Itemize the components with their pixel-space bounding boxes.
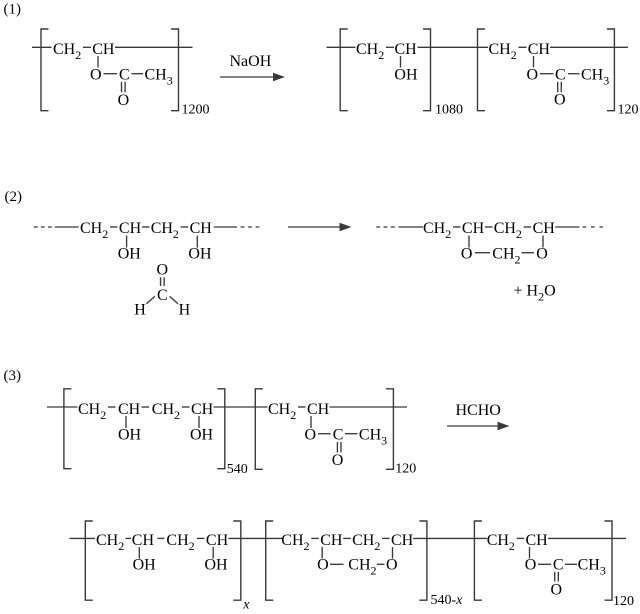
svg-text:CH: CH	[395, 41, 418, 58]
svg-text:CH: CH	[190, 220, 213, 237]
svg-text:NaOH: NaOH	[230, 53, 272, 70]
bond CH2-CH	[517, 537, 525, 539]
repeat count 120	[613, 594, 634, 609]
hydroxyl OH	[205, 557, 229, 574]
bond CH-O (right)	[542, 236, 544, 248]
svg-text:CH: CH	[92, 41, 115, 58]
reaction arrow 1	[220, 73, 285, 81]
bond CH2-CH	[83, 46, 91, 48]
CH2 group	[96, 532, 124, 553]
repeat count 120	[395, 462, 416, 477]
svg-text:OH: OH	[188, 246, 212, 263]
CH2 group	[268, 401, 296, 422]
right bracket of vinyl acetate unit	[605, 521, 613, 600]
svg-text:CH2: CH2	[356, 41, 384, 62]
bond C-H (left)	[146, 296, 154, 303]
svg-text:CH2: CH2	[80, 220, 108, 241]
svg-text:120: 120	[395, 462, 416, 477]
svg-text:1200: 1200	[182, 103, 210, 118]
CH group	[132, 532, 155, 549]
svg-text:CH: CH	[391, 532, 414, 549]
svg-text:120: 120	[613, 594, 634, 609]
repeat count 1200	[182, 103, 210, 118]
carbonyl C	[553, 557, 564, 574]
carbonyl C	[333, 427, 344, 444]
ester O	[305, 427, 317, 444]
backbone line	[214, 226, 237, 228]
svg-text:1080: 1080	[435, 103, 463, 118]
svg-text:O: O	[118, 92, 130, 109]
bond O-C	[540, 73, 554, 75]
svg-text:O: O	[461, 246, 473, 263]
repeat count x	[242, 598, 250, 613]
ester O	[525, 557, 537, 574]
CH2 group	[494, 220, 522, 241]
repeat count 540-x	[431, 593, 464, 608]
formaldehyde C	[157, 287, 168, 304]
carbonyl O	[118, 92, 130, 109]
repeat count 120	[618, 103, 639, 118]
bond CH-O	[310, 416, 312, 428]
svg-text:C: C	[555, 67, 566, 84]
svg-text:x: x	[242, 598, 250, 613]
formaldehyde C=O double bond	[161, 277, 165, 286]
svg-text:CH: CH	[528, 41, 551, 58]
svg-text:CH2: CH2	[281, 532, 309, 553]
svg-text:O: O	[525, 557, 537, 574]
CH group	[395, 41, 418, 58]
CH2 group	[281, 532, 309, 553]
bond CH2-CH	[181, 226, 189, 228]
left bracket of acetal unit	[266, 521, 274, 600]
formaldehyde O	[157, 262, 169, 279]
acetal CH2	[492, 246, 520, 267]
svg-text:CH: CH	[462, 220, 485, 237]
svg-text:CH2: CH2	[492, 246, 520, 267]
acetal O (right)	[386, 557, 398, 574]
bond CH-OH	[212, 547, 214, 559]
CH2 group	[80, 220, 108, 241]
svg-text:CH3: CH3	[581, 67, 609, 88]
bond CH-OH	[126, 236, 128, 248]
ester O	[527, 67, 539, 84]
backbone line through right bracket	[115, 46, 193, 48]
backbone line through right bracket	[548, 537, 626, 539]
CH2 group	[78, 401, 106, 422]
bond CH2-CH	[453, 226, 461, 228]
left bracket of vinyl alcohol unit	[340, 29, 348, 111]
bond CH2-O	[522, 252, 535, 254]
left bracket of vinyl acetate unit	[255, 389, 262, 470]
svg-text:H: H	[134, 302, 146, 319]
svg-text:CH3: CH3	[578, 557, 606, 578]
svg-text:O: O	[332, 452, 344, 469]
svg-text:540: 540	[227, 462, 248, 477]
svg-text:+ H2O: + H2O	[514, 283, 556, 304]
CH group	[320, 532, 343, 549]
label (3)	[4, 368, 22, 384]
carbonyl O	[332, 452, 344, 469]
reaction arrow 2	[288, 223, 352, 231]
bond CH-O (left)	[321, 547, 323, 559]
chain end dashes (right)	[241, 226, 261, 228]
bond CH-O	[97, 56, 99, 68]
svg-text:120: 120	[618, 103, 639, 118]
right bracket of vinyl alcohol diad	[217, 389, 225, 469]
svg-text:CH3: CH3	[359, 427, 387, 448]
backbone line between units	[418, 46, 489, 48]
bond CH-CH2	[158, 537, 165, 539]
left bracket of vinyl alcohol diad	[64, 389, 72, 469]
C=O double bond	[558, 82, 562, 93]
CH group	[533, 220, 556, 237]
bond CH-CH2	[142, 406, 150, 408]
reaction arrow 3	[447, 422, 510, 430]
CH group	[119, 220, 142, 237]
methyl CH3	[578, 557, 606, 578]
svg-text:CH2: CH2	[489, 41, 517, 62]
backbone line through right bracket	[550, 46, 628, 48]
bond CH2-CH	[108, 406, 116, 408]
acetal O (left)	[317, 557, 329, 574]
backbone line into vinyl-alcohol bracket	[327, 46, 356, 48]
bond CH-OH	[196, 236, 198, 248]
svg-text:C: C	[553, 557, 564, 574]
methyl CH3	[359, 427, 387, 448]
methyl CH3	[145, 67, 173, 88]
backbone line	[399, 226, 424, 228]
acetal O (right)	[536, 246, 548, 263]
hydroxyl OH	[394, 67, 418, 84]
C=O double bond	[555, 572, 559, 582]
svg-text:CH2: CH2	[96, 532, 124, 553]
methyl CH3	[581, 67, 609, 88]
svg-text:O: O	[527, 67, 539, 84]
svg-text:O: O	[554, 92, 566, 109]
formaldehyde H (right)	[179, 302, 191, 319]
svg-text:(1): (1)	[4, 2, 22, 18]
acetal CH2	[348, 557, 376, 578]
bond CH-O	[529, 547, 531, 559]
left bracket of vinyl acetate unit	[478, 29, 486, 111]
svg-text:CH2: CH2	[166, 532, 194, 553]
CH2 group	[356, 41, 384, 62]
bond O-CH2	[330, 563, 344, 565]
ester O	[90, 67, 102, 84]
svg-text:CH2: CH2	[352, 532, 380, 553]
bond CH-O	[533, 56, 535, 68]
backbone line through right bracket	[330, 406, 408, 408]
C=O double bond	[122, 82, 126, 93]
carbonyl C	[555, 67, 566, 84]
byproduct + H2O	[514, 283, 556, 304]
bond CH-O (left)	[468, 236, 470, 248]
backbone line into left bracket	[47, 406, 78, 408]
carbonyl C	[119, 67, 130, 84]
svg-text:CH: CH	[307, 401, 330, 418]
bond CH-O (right)	[392, 547, 394, 559]
formaldehyde H (left)	[134, 302, 146, 319]
svg-text:OH: OH	[190, 427, 214, 444]
svg-text:O: O	[90, 67, 102, 84]
bond C-H (right)	[170, 296, 178, 303]
bond C-CH3	[345, 433, 358, 435]
hydroxyl OH	[118, 427, 142, 444]
bond O-C	[104, 73, 118, 75]
bond C-CH3	[132, 73, 144, 75]
svg-text:CH: CH	[206, 532, 229, 549]
CH group	[118, 401, 141, 418]
svg-text:CH: CH	[191, 401, 214, 418]
right bracket of acetal unit	[419, 521, 427, 600]
bond CH-OH	[125, 416, 127, 428]
bond CH2-CH	[382, 537, 390, 539]
svg-text:(3): (3)	[4, 368, 22, 384]
right bracket of PVAc unit	[171, 29, 179, 111]
bond CH2-CH	[524, 226, 532, 228]
bond CH2-CH	[298, 406, 306, 408]
bond CH2-CH	[110, 226, 118, 228]
svg-text:CH: CH	[132, 532, 155, 549]
svg-text:HCHO: HCHO	[456, 402, 501, 419]
C=O double bond	[337, 442, 341, 453]
svg-text:OH: OH	[118, 246, 142, 263]
bond CH2-CH	[197, 537, 205, 539]
label (2)	[5, 189, 23, 205]
svg-text:C: C	[333, 427, 344, 444]
svg-text:CH2: CH2	[494, 220, 522, 241]
backbone line into left bracket	[70, 537, 96, 539]
svg-text:O: O	[305, 427, 317, 444]
svg-text:O: O	[386, 557, 398, 574]
bond CH-CH2	[343, 537, 351, 539]
chain end dashes (left)	[34, 226, 52, 228]
CH group	[526, 532, 549, 549]
carbonyl O	[551, 582, 563, 599]
svg-text:OH: OH	[133, 557, 157, 574]
bond CH2-CH	[519, 46, 527, 48]
repeat count 1080	[435, 103, 463, 118]
svg-text:OH: OH	[394, 67, 418, 84]
reagent HCHO	[456, 402, 501, 419]
svg-text:C: C	[157, 287, 168, 304]
svg-text:C: C	[119, 67, 130, 84]
right bracket of vinyl acetate unit	[386, 389, 394, 470]
CH2 group	[151, 220, 179, 241]
CH group	[462, 220, 485, 237]
svg-text:CH3: CH3	[145, 67, 173, 88]
CH group	[391, 532, 414, 549]
svg-text:H: H	[179, 302, 191, 319]
bond C-CH3	[565, 563, 577, 565]
CH group	[307, 401, 330, 418]
backbone line	[413, 537, 487, 539]
hydroxyl OH	[133, 557, 157, 574]
right bracket of vinyl acetate unit	[607, 29, 615, 111]
bond CH2-CH	[126, 537, 132, 539]
svg-text:CH2: CH2	[268, 401, 296, 422]
CH group	[206, 532, 229, 549]
bond CH2-CH	[182, 406, 190, 408]
bond CH-OH	[138, 547, 140, 559]
bond CH-CH2	[485, 226, 493, 228]
bond CH-CH2	[142, 226, 150, 228]
chain end dashes (left)	[376, 226, 397, 228]
bond O-C	[318, 433, 331, 435]
bond CH-OH	[400, 56, 402, 68]
svg-text:O: O	[536, 246, 548, 263]
svg-text:O: O	[317, 557, 329, 574]
CH group	[92, 41, 115, 58]
CH group	[191, 401, 214, 418]
CH2 group	[489, 41, 517, 62]
svg-text:CH2: CH2	[423, 220, 451, 241]
right bracket of vinyl alcohol diad	[233, 521, 241, 600]
CH2 group	[352, 532, 380, 553]
CH group	[190, 220, 213, 237]
CH group	[528, 41, 551, 58]
svg-text:540-x: 540-x	[431, 593, 464, 608]
svg-text:OH: OH	[118, 427, 142, 444]
backbone line	[228, 537, 282, 539]
svg-text:CH: CH	[533, 220, 556, 237]
svg-text:(2): (2)	[5, 189, 23, 205]
svg-text:O: O	[551, 582, 563, 599]
svg-text:CH: CH	[119, 220, 142, 237]
label (1)	[4, 2, 22, 18]
bond C-CH3	[568, 73, 580, 75]
hydroxyl OH	[190, 427, 214, 444]
left bracket of PVAc unit	[41, 29, 49, 111]
left bracket of vinyl acetate unit	[474, 521, 482, 600]
CH2 group	[166, 532, 194, 553]
CH2 group	[53, 41, 81, 62]
bond CH2-CH	[311, 537, 319, 539]
carbonyl O	[554, 92, 566, 109]
svg-text:CH2: CH2	[78, 401, 106, 422]
bond CH2-O	[377, 563, 385, 565]
reagent NaOH	[230, 53, 272, 70]
svg-text:CH2: CH2	[151, 220, 179, 241]
chain end dashes (right)	[583, 226, 604, 228]
svg-text:CH: CH	[118, 401, 141, 418]
CH2 group	[423, 220, 451, 241]
left bracket of vinyl alcohol diad	[85, 521, 93, 600]
acetal O (left)	[461, 246, 473, 263]
repeat count 540	[227, 462, 248, 477]
svg-text:CH: CH	[320, 532, 343, 549]
bond O-CH2	[475, 252, 490, 254]
bond O-C	[538, 563, 551, 565]
backbone line	[55, 226, 79, 228]
bond CH2-CH	[386, 46, 394, 48]
backbone line into left bracket	[32, 46, 52, 48]
svg-text:CH2: CH2	[348, 557, 376, 578]
hydroxyl OH	[188, 246, 212, 263]
hydroxyl OH	[118, 246, 142, 263]
svg-text:CH2: CH2	[53, 41, 81, 62]
right bracket of vinyl alcohol unit	[423, 29, 431, 111]
backbone line	[214, 406, 268, 408]
svg-text:OH: OH	[205, 557, 229, 574]
bond CH-OH	[198, 416, 200, 428]
CH2 group	[487, 532, 515, 553]
svg-text:CH2: CH2	[487, 532, 515, 553]
backbone line	[555, 226, 579, 228]
svg-text:CH: CH	[526, 532, 549, 549]
CH2 group	[152, 401, 180, 422]
svg-text:CH2: CH2	[152, 401, 180, 422]
svg-text:O: O	[157, 262, 169, 279]
